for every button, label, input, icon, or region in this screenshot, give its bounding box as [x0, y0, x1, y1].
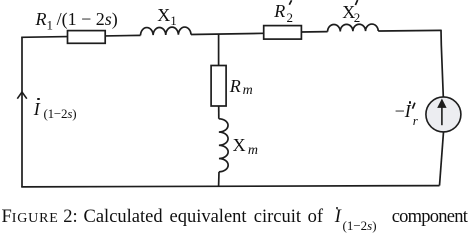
wire: bottom horizontal — [21, 186, 439, 187]
caption: component — [392, 208, 467, 227]
caption: subscript (1-2s) — [343, 219, 377, 232]
label X1 — [157, 6, 177, 27]
label -I'r : subscript r — [413, 114, 418, 127]
label R1/(1-2s) — [36, 10, 118, 32]
caption: overdot on I — [336, 207, 338, 209]
prime mark of R2' label — [289, 0, 291, 5]
wire: left vertical — [21, 37, 23, 187]
label R2' : subscript 2 — [287, 11, 294, 24]
resistor Rm — [211, 66, 226, 107]
resistor R2' — [264, 26, 302, 39]
label Xm : X — [233, 136, 246, 154]
prime mark of X2' label — [355, 0, 357, 5]
label R2' : R — [274, 2, 285, 20]
current source arrow head — [437, 99, 446, 108]
prime mark of -I'r label — [413, 103, 415, 109]
caption: circuit — [254, 208, 301, 227]
wire: Rm to Xm — [218, 106, 220, 119]
label Rm : R — [230, 77, 241, 95]
label I(1-2s) : I body — [34, 100, 40, 118]
inductor X2' — [328, 24, 379, 32]
caption: equivalent — [170, 208, 247, 227]
wire: X1 to R2' (through middle junction) — [191, 33, 264, 34]
caption: I symbol — [335, 208, 341, 227]
caption: Calculated — [84, 208, 163, 227]
label -I'r : minus and I — [395, 102, 411, 120]
wire: right vertical bottom (current source to bottom wire) — [440, 132, 444, 186]
label X2' : subscript 2 — [354, 11, 361, 24]
wire: X2' to top right corner — [378, 29, 441, 32]
label I(1-2s) : overdot — [37, 98, 40, 101]
current source arrow shaft — [441, 107, 443, 126]
caption: FIGURE 2: — [2, 208, 78, 227]
inductor X1 — [141, 27, 192, 35]
label X2' : X — [342, 3, 355, 21]
label I(1-2s) : subscript (1-2s) — [44, 107, 77, 120]
inductor Xm — [219, 119, 228, 172]
wire: right vertical top (corner to current source) — [441, 30, 443, 97]
wire: R2' to X2' — [301, 31, 327, 33]
wire: middle junction down to Rm — [218, 34, 220, 65]
label Xm : subscript m — [248, 144, 258, 158]
label -I'r : overdot — [409, 101, 412, 104]
current source U1 circle — [426, 97, 461, 132]
current direction arrow on left wire — [17, 92, 27, 99]
label Rm : subscript m — [243, 84, 253, 98]
caption: of — [308, 208, 323, 227]
wire: R1 to X1 — [105, 34, 140, 37]
resistor R1 (R1/(1-2s)) — [68, 31, 106, 44]
wire: top left corner to R1 — [21, 36, 67, 39]
wire: Xm to bottom wire — [218, 172, 220, 187]
